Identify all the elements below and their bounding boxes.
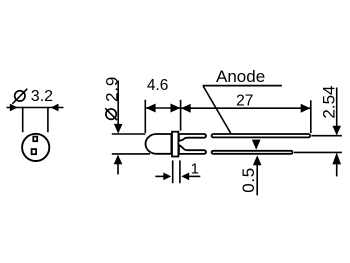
svg-text:Anode: Anode [216, 67, 265, 86]
svg-text:1: 1 [191, 160, 199, 177]
svg-text:0.5: 0.5 [239, 167, 258, 193]
svg-text:27: 27 [236, 92, 253, 109]
svg-text:4.6: 4.6 [147, 77, 169, 94]
svg-text:2.54: 2.54 [320, 86, 339, 119]
svg-text:3.2: 3.2 [31, 88, 53, 105]
